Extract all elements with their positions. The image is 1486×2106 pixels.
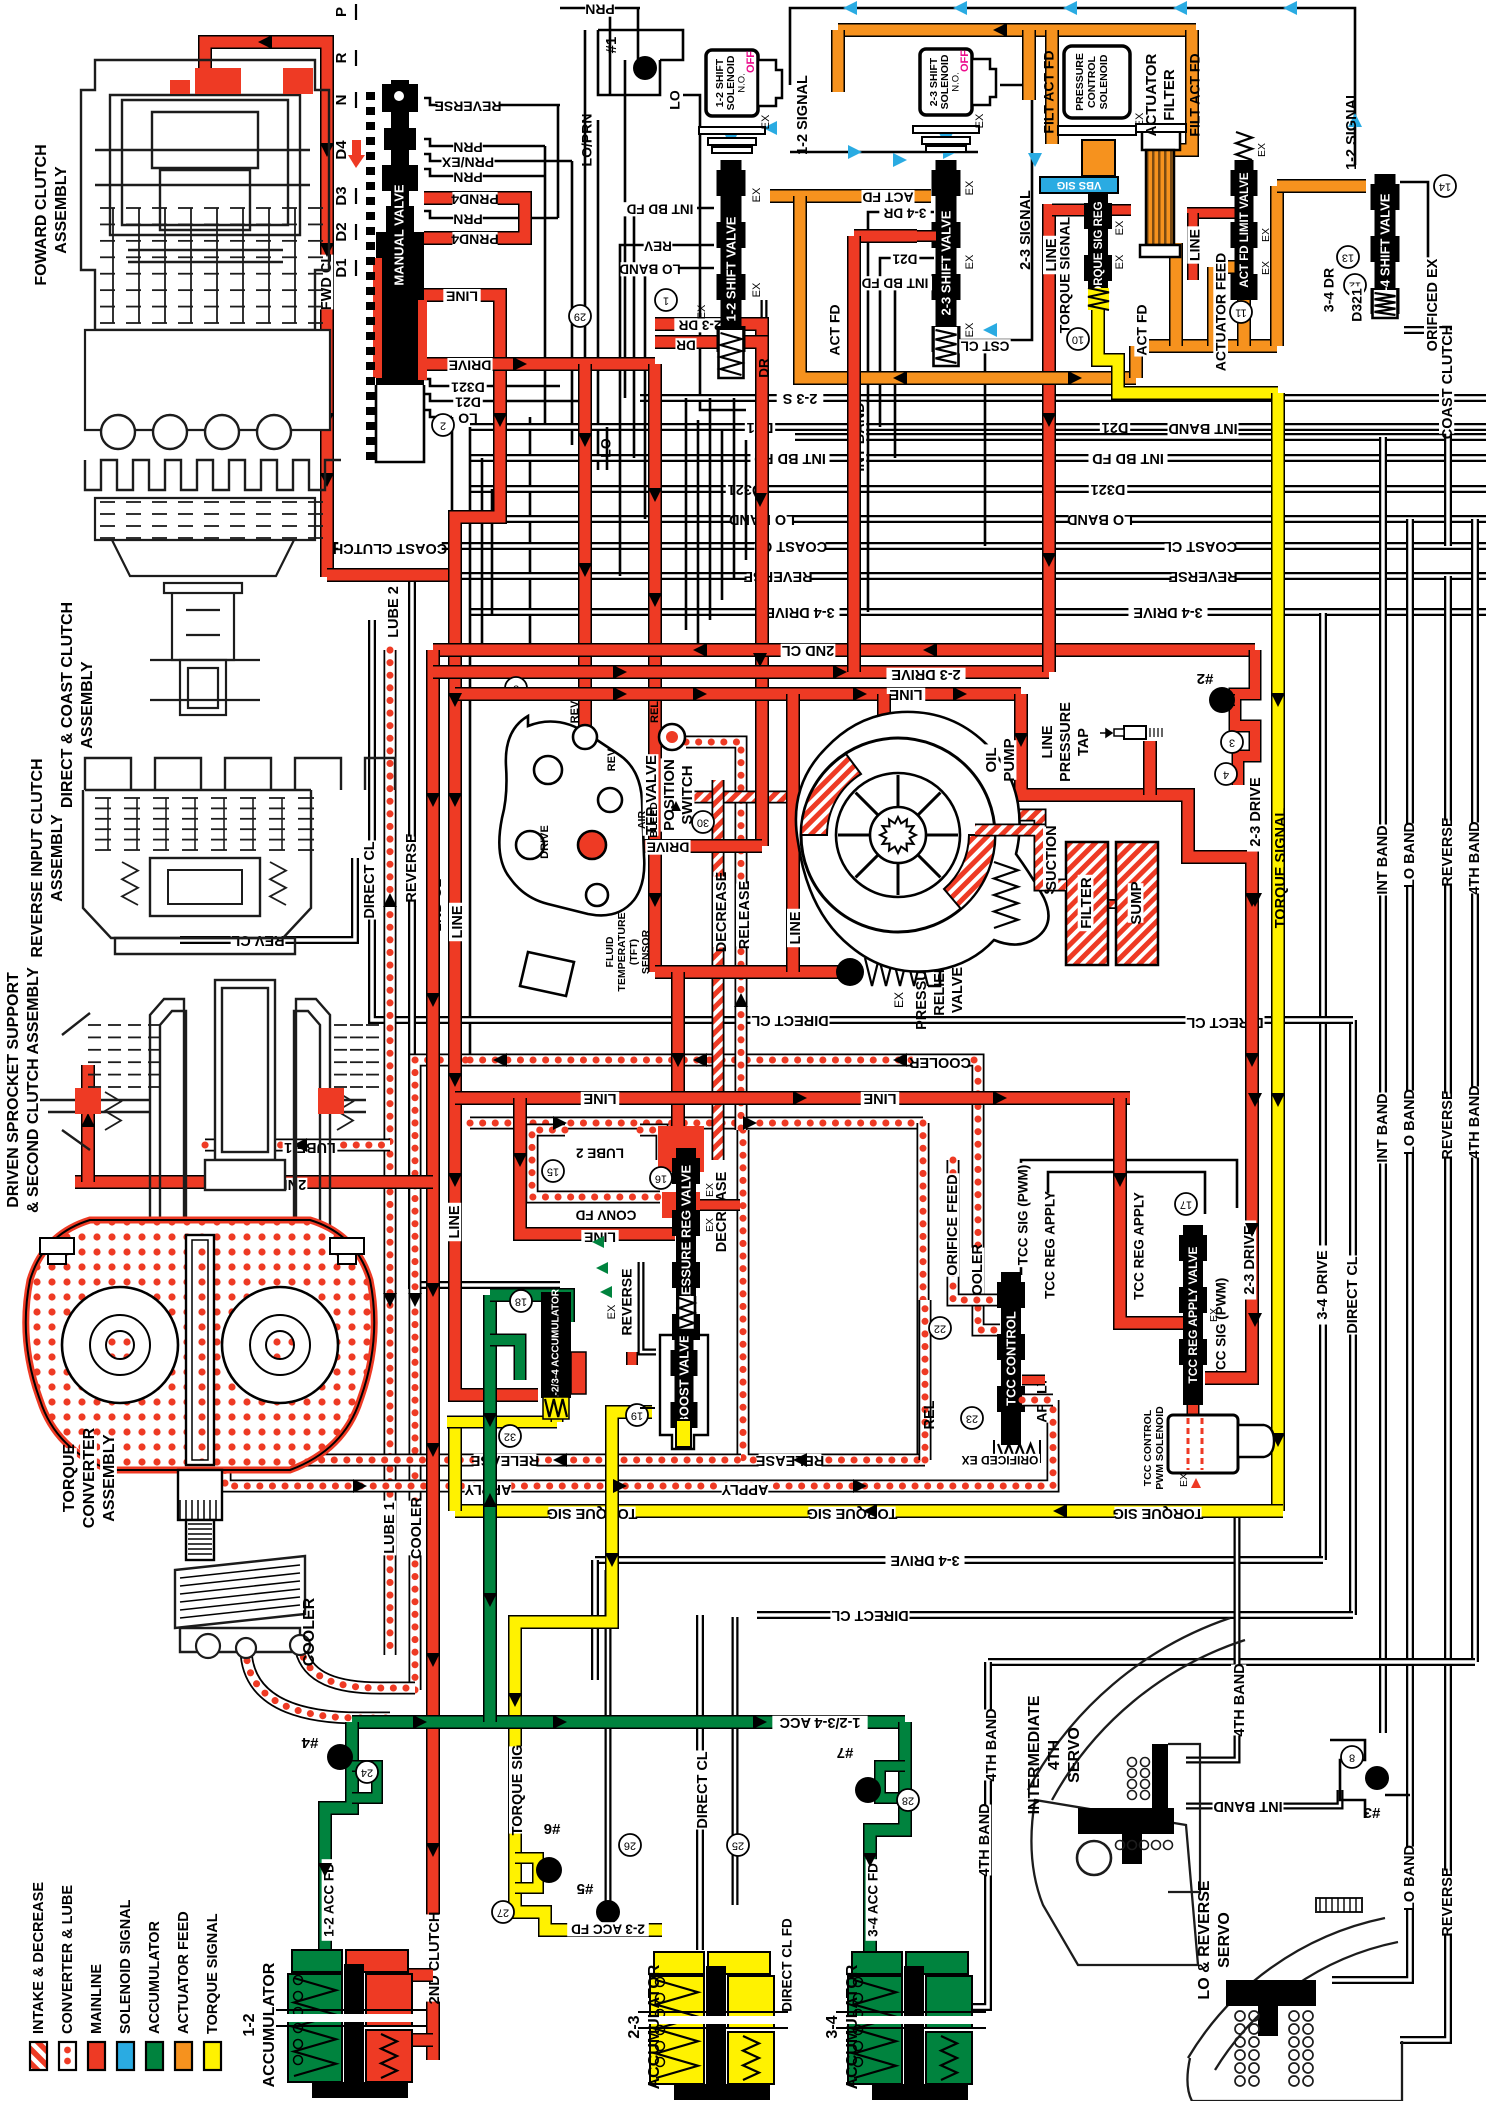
svg-text:D21: D21 [892, 251, 917, 266]
svg-text:EX: EX [704, 1183, 716, 1197]
svg-text:TORQUE SIG: TORQUE SIG [807, 1505, 898, 1521]
svg-text:REV: REV [644, 238, 672, 253]
svg-text:INT BD FD: INT BD FD [1092, 450, 1164, 466]
svg-text:LINE: LINE [788, 911, 804, 944]
svg-text:EX: EX [964, 322, 976, 337]
svg-text:ACT FD LIMIT VALVE: ACT FD LIMIT VALVE [1239, 172, 1251, 288]
svg-text:ACCUMULATOR: ACCUMULATOR [844, 1964, 861, 2089]
svg-text:11: 11 [1235, 307, 1246, 319]
svg-text:#7: #7 [837, 1744, 854, 1761]
svg-text:29: 29 [574, 311, 586, 323]
svg-text:CONVERTER & LUBE: CONVERTER & LUBE [60, 1885, 76, 2034]
svg-text:TORQUE: TORQUE [61, 1444, 78, 1512]
svg-text:REV: REV [606, 748, 618, 771]
svg-text:1-2/3-4 ACCUMULATOR: 1-2/3-4 ACCUMULATOR [551, 1288, 562, 1401]
svg-text:COAST CLUTCH: COAST CLUTCH [1440, 325, 1456, 439]
svg-text:ASSEMBLY: ASSEMBLY [79, 661, 96, 749]
svg-text:FILT ACT FD: FILT ACT FD [1187, 53, 1203, 136]
svg-text:LO: LO [667, 90, 683, 110]
svg-text:COAST CLUTCH: COAST CLUTCH [333, 540, 447, 556]
svg-text:COOLER: COOLER [409, 1496, 425, 1559]
svg-text:EX: EX [1178, 1473, 1190, 1487]
svg-text:CST CL: CST CL [961, 338, 1010, 353]
svg-text:& SECOND CLUTCH ASSEMBLY: & SECOND CLUTCH ASSEMBLY [25, 967, 42, 1213]
svg-text:ACCUMULATOR: ACCUMULATOR [147, 1920, 163, 2034]
svg-text:VBS SIG: VBS SIG [1057, 179, 1102, 191]
svg-text:23: 23 [966, 1413, 978, 1425]
svg-text:SOLENOID: SOLENOID [1098, 54, 1110, 109]
svg-text:OFF: OFF [745, 51, 757, 73]
svg-text:TCC REG APPLY VALVE: TCC REG APPLY VALVE [1186, 1246, 1200, 1383]
svg-text:FILT ACT FD: FILT ACT FD [1041, 50, 1057, 133]
svg-text:4: 4 [1223, 769, 1229, 781]
svg-text:2ND CL: 2ND CL [782, 642, 835, 658]
svg-text:BOOST VALVE: BOOST VALVE [676, 1334, 691, 1426]
svg-text:ACT FD: ACT FD [827, 304, 843, 355]
svg-text:EX: EX [964, 180, 976, 195]
svg-text:TORQUE SIG: TORQUE SIG [510, 1745, 526, 1836]
svg-text:ACTUATOR: ACTUATOR [1143, 53, 1160, 136]
svg-text:REVERSE: REVERSE [1440, 1867, 1456, 1937]
svg-text:DIRECT CL: DIRECT CL [831, 1607, 908, 1623]
svg-text:3-4 DRIVE: 3-4 DRIVE [1133, 604, 1203, 620]
svg-text:DRIVE: DRIVE [539, 825, 551, 859]
svg-text:REVERSE: REVERSE [1440, 817, 1456, 887]
svg-text:4TH BAND: 4TH BAND [1467, 821, 1483, 894]
svg-text:EX: EX [751, 187, 763, 202]
svg-text:PRESSURE REG VALVE: PRESSURE REG VALVE [678, 1165, 693, 1314]
svg-text:PRN: PRN [585, 1, 615, 17]
svg-text:CONTROL: CONTROL [1086, 55, 1098, 107]
svg-text:3-4 ACC FD: 3-4 ACC FD [866, 1863, 881, 1937]
svg-text:LO BAND: LO BAND [619, 261, 681, 276]
svg-text:3: 3 [1229, 737, 1235, 749]
svg-text:LINE: LINE [583, 1090, 616, 1106]
svg-text:8: 8 [1349, 1752, 1355, 1764]
svg-text:D4: D4 [333, 140, 350, 160]
svg-text:DR: DR [757, 358, 772, 378]
svg-text:PRND4: PRND4 [451, 191, 499, 207]
svg-text:1: 1 [663, 295, 669, 307]
svg-text:DIRECT & COAST CLUTCH: DIRECT & COAST CLUTCH [59, 602, 76, 808]
svg-text:PRESSURE: PRESSURE [1058, 702, 1074, 782]
svg-text:17: 17 [1180, 1199, 1192, 1211]
svg-text:ACCUMULATOR: ACCUMULATOR [646, 1964, 663, 2089]
svg-text:4TH BAND: 4TH BAND [984, 1708, 1000, 1781]
svg-text:CONV FD: CONV FD [575, 1207, 636, 1222]
svg-text:D321: D321 [1349, 288, 1365, 322]
svg-text:D21: D21 [1102, 419, 1129, 435]
svg-text:LUBE 2: LUBE 2 [386, 586, 402, 638]
svg-text:32: 32 [504, 1431, 516, 1443]
svg-text:19: 19 [631, 1410, 643, 1422]
svg-text:N.O.: N.O. [951, 72, 962, 92]
svg-text:18: 18 [515, 1296, 527, 1308]
svg-text:DIRECT CL FD: DIRECT CL FD [780, 1918, 795, 2012]
svg-text:N: N [333, 95, 350, 106]
svg-text:2-3 S: 2-3 S [782, 390, 817, 406]
svg-text:EX: EX [892, 992, 906, 1008]
svg-text:PRN: PRN [453, 169, 483, 185]
svg-text:EX: EX [964, 254, 976, 269]
svg-text:REVERSE INPUT CLUTCH: REVERSE INPUT CLUTCH [29, 758, 46, 957]
svg-text:1-2 SIGNAL: 1-2 SIGNAL [1344, 90, 1360, 170]
svg-text:DR: DR [676, 337, 696, 352]
svg-text:RELEASE: RELEASE [737, 880, 753, 949]
svg-text:ACTUATOR FEED: ACTUATOR FEED [1213, 253, 1229, 371]
svg-text:4TH BAND: 4TH BAND [1467, 1085, 1483, 1158]
svg-text:#5: #5 [577, 1880, 594, 1897]
svg-text:EX: EX [704, 1218, 716, 1232]
svg-text:CONVERTER: CONVERTER [81, 1427, 98, 1528]
svg-text:4TH BAND: 4TH BAND [1232, 1663, 1248, 1736]
svg-text:FILTER: FILTER [1161, 69, 1178, 121]
svg-text:LUBE 1: LUBE 1 [382, 1502, 398, 1554]
svg-text:SERVO: SERVO [1066, 1727, 1083, 1783]
svg-text:PWM SOLENOID: PWM SOLENOID [1154, 1406, 1166, 1490]
svg-text:DIRECT CL: DIRECT CL [695, 1751, 711, 1828]
svg-text:R: R [333, 52, 350, 63]
svg-text:1-2: 1-2 [241, 2013, 258, 2036]
svg-text:INTAKE & DECREASE: INTAKE & DECREASE [31, 1882, 47, 2034]
svg-text:OIL: OIL [983, 748, 1000, 773]
svg-text:(TFT): (TFT) [628, 939, 640, 965]
svg-text:REVERSE: REVERSE [1440, 1090, 1456, 1160]
svg-text:AIR: AIR [636, 811, 648, 830]
svg-text:FLUID: FLUID [604, 936, 616, 967]
svg-text:LUBE 1: LUBE 1 [284, 1139, 336, 1155]
svg-text:#3: #3 [1364, 1804, 1381, 1821]
svg-text:INT BAND: INT BAND [1168, 420, 1237, 436]
svg-text:LO BAND: LO BAND [1402, 1845, 1418, 1911]
svg-text:TCC REG APPLY: TCC REG APPLY [1043, 1191, 1058, 1299]
svg-text:EX: EX [1260, 261, 1272, 275]
svg-text:FOWARD CLUTCH: FOWARD CLUTCH [33, 144, 50, 285]
svg-text:LINE: LINE [1040, 725, 1056, 758]
svg-text:COOLER: COOLER [908, 1054, 971, 1070]
svg-text:DECREASE: DECREASE [714, 871, 730, 952]
svg-text:TAP: TAP [1076, 728, 1092, 756]
svg-text:INT BAND: INT BAND [1375, 1093, 1391, 1162]
svg-text:3-4 DR: 3-4 DR [883, 205, 926, 220]
svg-text:DECREASE: DECREASE [714, 1171, 730, 1252]
svg-text:REV: REV [569, 700, 581, 723]
svg-text:ASSEMBLY: ASSEMBLY [49, 814, 66, 902]
svg-text:REVERSE: REVERSE [1168, 568, 1238, 584]
svg-text:LO BAND: LO BAND [1067, 511, 1133, 527]
svg-text:2: 2 [440, 420, 446, 432]
svg-text:SOLENOID: SOLENOID [939, 54, 951, 109]
svg-text:PUMP: PUMP [1001, 738, 1018, 781]
svg-text:28: 28 [902, 1795, 914, 1807]
svg-text:FWD CL: FWD CL [319, 254, 335, 311]
svg-text:ACCUMULATOR: ACCUMULATOR [261, 1962, 278, 2087]
svg-text:DRIVE: DRIVE [647, 839, 690, 855]
svg-text:ORIFICED EX: ORIFICED EX [1425, 258, 1441, 351]
svg-text:3-4: 3-4 [824, 2015, 841, 2038]
svg-text:ORIFICED EX: ORIFICED EX [962, 1453, 1039, 1467]
svg-text:24: 24 [361, 1767, 373, 1779]
svg-text:3-4 DRIVE: 3-4 DRIVE [1315, 1250, 1331, 1320]
svg-text:2-3 SHIFT VALVE: 2-3 SHIFT VALVE [938, 210, 953, 315]
svg-text:EX: EX [1114, 254, 1126, 269]
svg-text:#6: #6 [544, 1820, 561, 1837]
svg-text:DRIVEN SPROCKET SUPPORT: DRIVEN SPROCKET SUPPORT [5, 972, 22, 1208]
svg-text:2-3 DRIVE: 2-3 DRIVE [891, 666, 961, 682]
svg-text:PRN: PRN [453, 211, 483, 227]
svg-text:EX: EX [1260, 228, 1272, 242]
svg-text:EX: EX [1114, 220, 1126, 235]
svg-text:LO & REVERSE: LO & REVERSE [1196, 1880, 1213, 1999]
svg-text:#1: #1 [603, 37, 620, 54]
svg-text:DIRECT CL: DIRECT CL [1345, 1256, 1361, 1333]
svg-text:DIRECT CL: DIRECT CL [751, 1012, 828, 1028]
svg-text:TCC SIG (PWM): TCC SIG (PWM) [1016, 1165, 1031, 1266]
svg-text:REVERSE: REVERSE [404, 833, 420, 903]
svg-text:REVERSE: REVERSE [435, 98, 502, 114]
svg-text:LO/PRN: LO/PRN [579, 114, 595, 167]
svg-text:1-2/3-4 ACC: 1-2/3-4 ACC [779, 1714, 860, 1730]
svg-text:EX: EX [1256, 143, 1268, 157]
svg-text:D321: D321 [1091, 481, 1126, 497]
svg-text:REVERSE: REVERSE [619, 1269, 635, 1336]
svg-text:TORQUE SIG: TORQUE SIG [547, 1505, 638, 1521]
svg-text:REV CL: REV CL [231, 932, 284, 948]
svg-text:2-3 DRIVE: 2-3 DRIVE [1248, 777, 1264, 847]
svg-text:COOLER: COOLER [301, 1597, 318, 1666]
svg-text:ACT FD: ACT FD [1134, 304, 1150, 355]
svg-text:DIRECT CL: DIRECT CL [362, 841, 378, 918]
svg-text:REL: REL [922, 1400, 938, 1429]
svg-text:2-3 ACC FD: 2-3 ACC FD [571, 1921, 645, 1936]
svg-text:APPLY: APPLY [721, 1481, 768, 1497]
svg-text:POSITION: POSITION [661, 759, 678, 831]
svg-text:TCC REG APPLY: TCC REG APPLY [1132, 1192, 1147, 1300]
svg-text:SOLENOID SIGNAL: SOLENOID SIGNAL [118, 1899, 134, 2034]
svg-text:D321: D321 [451, 379, 485, 395]
svg-text:INT BAND: INT BAND [1213, 1798, 1282, 1814]
svg-text:PRN: PRN [453, 139, 483, 155]
svg-text:4TH: 4TH [1046, 1740, 1063, 1770]
svg-text:TEMPERATURE: TEMPERATURE [616, 912, 628, 991]
svg-text:TORQUE SIGNAL: TORQUE SIGNAL [205, 1913, 221, 2034]
svg-text:INTERMEDIATE: INTERMEDIATE [1026, 1695, 1043, 1814]
svg-text:PRN/EX: PRN/EX [441, 154, 494, 170]
svg-text:INT BD FD: INT BD FD [626, 201, 693, 216]
svg-text:N.O.: N.O. [737, 73, 748, 93]
svg-text:3-4 SHIFT VALVE: 3-4 SHIFT VALVE [1377, 193, 1392, 298]
svg-text:DRIVE: DRIVE [449, 357, 492, 373]
svg-text:PRESSURE: PRESSURE [1074, 53, 1086, 111]
svg-text:SOLENOID: SOLENOID [725, 55, 737, 110]
svg-text:ORIFICE FEED: ORIFICE FEED [945, 1174, 961, 1276]
svg-text:TORQUE SIG: TORQUE SIG [1113, 1505, 1204, 1521]
svg-text:EX: EX [974, 113, 986, 128]
svg-text:25: 25 [732, 1840, 744, 1852]
svg-text:27: 27 [497, 1907, 509, 1919]
svg-text:LINE: LINE [1187, 229, 1203, 261]
svg-text:EX: EX [696, 304, 708, 319]
svg-text:15: 15 [547, 1166, 559, 1178]
svg-text:3-4 DRIVE: 3-4 DRIVE [890, 1552, 960, 1568]
svg-text:MANUAL VALVE: MANUAL VALVE [391, 184, 406, 285]
svg-text:ASSEMBLY: ASSEMBLY [101, 1434, 118, 1522]
svg-text:D3: D3 [333, 186, 350, 205]
svg-text:ACT FD: ACT FD [862, 189, 913, 205]
svg-text:TCC CONTROL: TCC CONTROL [1142, 1409, 1154, 1486]
svg-text:D21: D21 [455, 394, 481, 410]
svg-text:ACTUATOR FEED: ACTUATOR FEED [176, 1911, 192, 2034]
svg-text:TORQUE SIGNAL: TORQUE SIGNAL [1273, 808, 1289, 929]
svg-text:LINE: LINE [450, 905, 466, 938]
svg-text:MAINLINE: MAINLINE [89, 1964, 105, 2034]
svg-text:2-3 SIGNAL: 2-3 SIGNAL [1018, 190, 1034, 270]
svg-text:TCC SIG (PWM): TCC SIG (PWM) [1214, 1278, 1229, 1379]
svg-text:LINE: LINE [863, 1090, 896, 1106]
svg-text:3-4 DR: 3-4 DR [1321, 268, 1337, 312]
svg-text:SERVO: SERVO [1216, 1912, 1233, 1968]
svg-text:ASSEMBLY: ASSEMBLY [53, 166, 70, 254]
svg-text:LINE: LINE [889, 686, 922, 702]
svg-text:REL: REL [649, 701, 661, 723]
svg-text:26: 26 [624, 1840, 636, 1852]
svg-text:INT BAND: INT BAND [1375, 825, 1391, 894]
svg-text:BLEED: BLEED [648, 802, 660, 838]
svg-text:D1: D1 [333, 258, 350, 277]
svg-text:LINE: LINE [447, 1205, 463, 1238]
svg-text:#2: #2 [1197, 670, 1214, 687]
svg-text:SENSOR: SENSOR [640, 929, 652, 974]
svg-text:22: 22 [934, 1323, 946, 1335]
svg-text:INT BD FD: INT BD FD [861, 275, 928, 290]
svg-text:PRND4: PRND4 [451, 231, 499, 247]
svg-text:1-2 SHIFT VALVE: 1-2 SHIFT VALVE [723, 216, 738, 321]
svg-text:TCC CONTROL: TCC CONTROL [1003, 1311, 1018, 1406]
svg-text:SUMP: SUMP [1128, 881, 1145, 924]
svg-text:OFF: OFF [959, 50, 971, 72]
svg-text:LO BAND: LO BAND [1402, 1089, 1418, 1155]
svg-text:SUCTION: SUCTION [1044, 825, 1060, 890]
svg-text:14: 14 [1439, 181, 1451, 193]
svg-text:COAST CL: COAST CL [1163, 538, 1237, 554]
svg-text:P: P [333, 7, 350, 17]
svg-text:EX: EX [1208, 1308, 1220, 1322]
svg-text:RELEASE: RELEASE [470, 1452, 539, 1468]
svg-text:2-3 DRIVE: 2-3 DRIVE [1242, 1225, 1258, 1295]
svg-text:4TH BAND: 4TH BAND [977, 1803, 993, 1876]
svg-text:RELEASE: RELEASE [755, 1452, 824, 1468]
svg-text:FILTER: FILTER [1078, 877, 1095, 929]
svg-text:D2: D2 [333, 222, 350, 241]
svg-text:3-4 DRIVE: 3-4 DRIVE [765, 604, 835, 620]
svg-text:REVERSE: REVERSE [743, 568, 813, 584]
svg-text:EX: EX [751, 282, 763, 297]
svg-text:1-2 SIGNAL: 1-2 SIGNAL [795, 75, 811, 155]
svg-text:#4: #4 [301, 1734, 318, 1751]
svg-text:TORQUE SIGNAL: TORQUE SIGNAL [1057, 216, 1073, 333]
svg-text:30: 30 [697, 817, 709, 829]
svg-text:16: 16 [655, 1173, 667, 1185]
svg-text:LINE: LINE [446, 288, 478, 304]
svg-text:EX: EX [760, 114, 772, 129]
svg-text:2-3: 2-3 [626, 2015, 643, 2038]
svg-text:LUBE 2: LUBE 2 [576, 1145, 624, 1160]
svg-text:LO BAND: LO BAND [1402, 822, 1418, 888]
svg-text:10: 10 [1072, 334, 1084, 346]
svg-text:VALVE: VALVE [950, 967, 966, 1014]
svg-text:2ND CLUTCH: 2ND CLUTCH [427, 1912, 443, 2005]
svg-text:TORQUE SIG REG: TORQUE SIG REG [1093, 201, 1105, 301]
svg-text:EX: EX [606, 1304, 618, 1319]
svg-text:13: 13 [1342, 252, 1354, 264]
